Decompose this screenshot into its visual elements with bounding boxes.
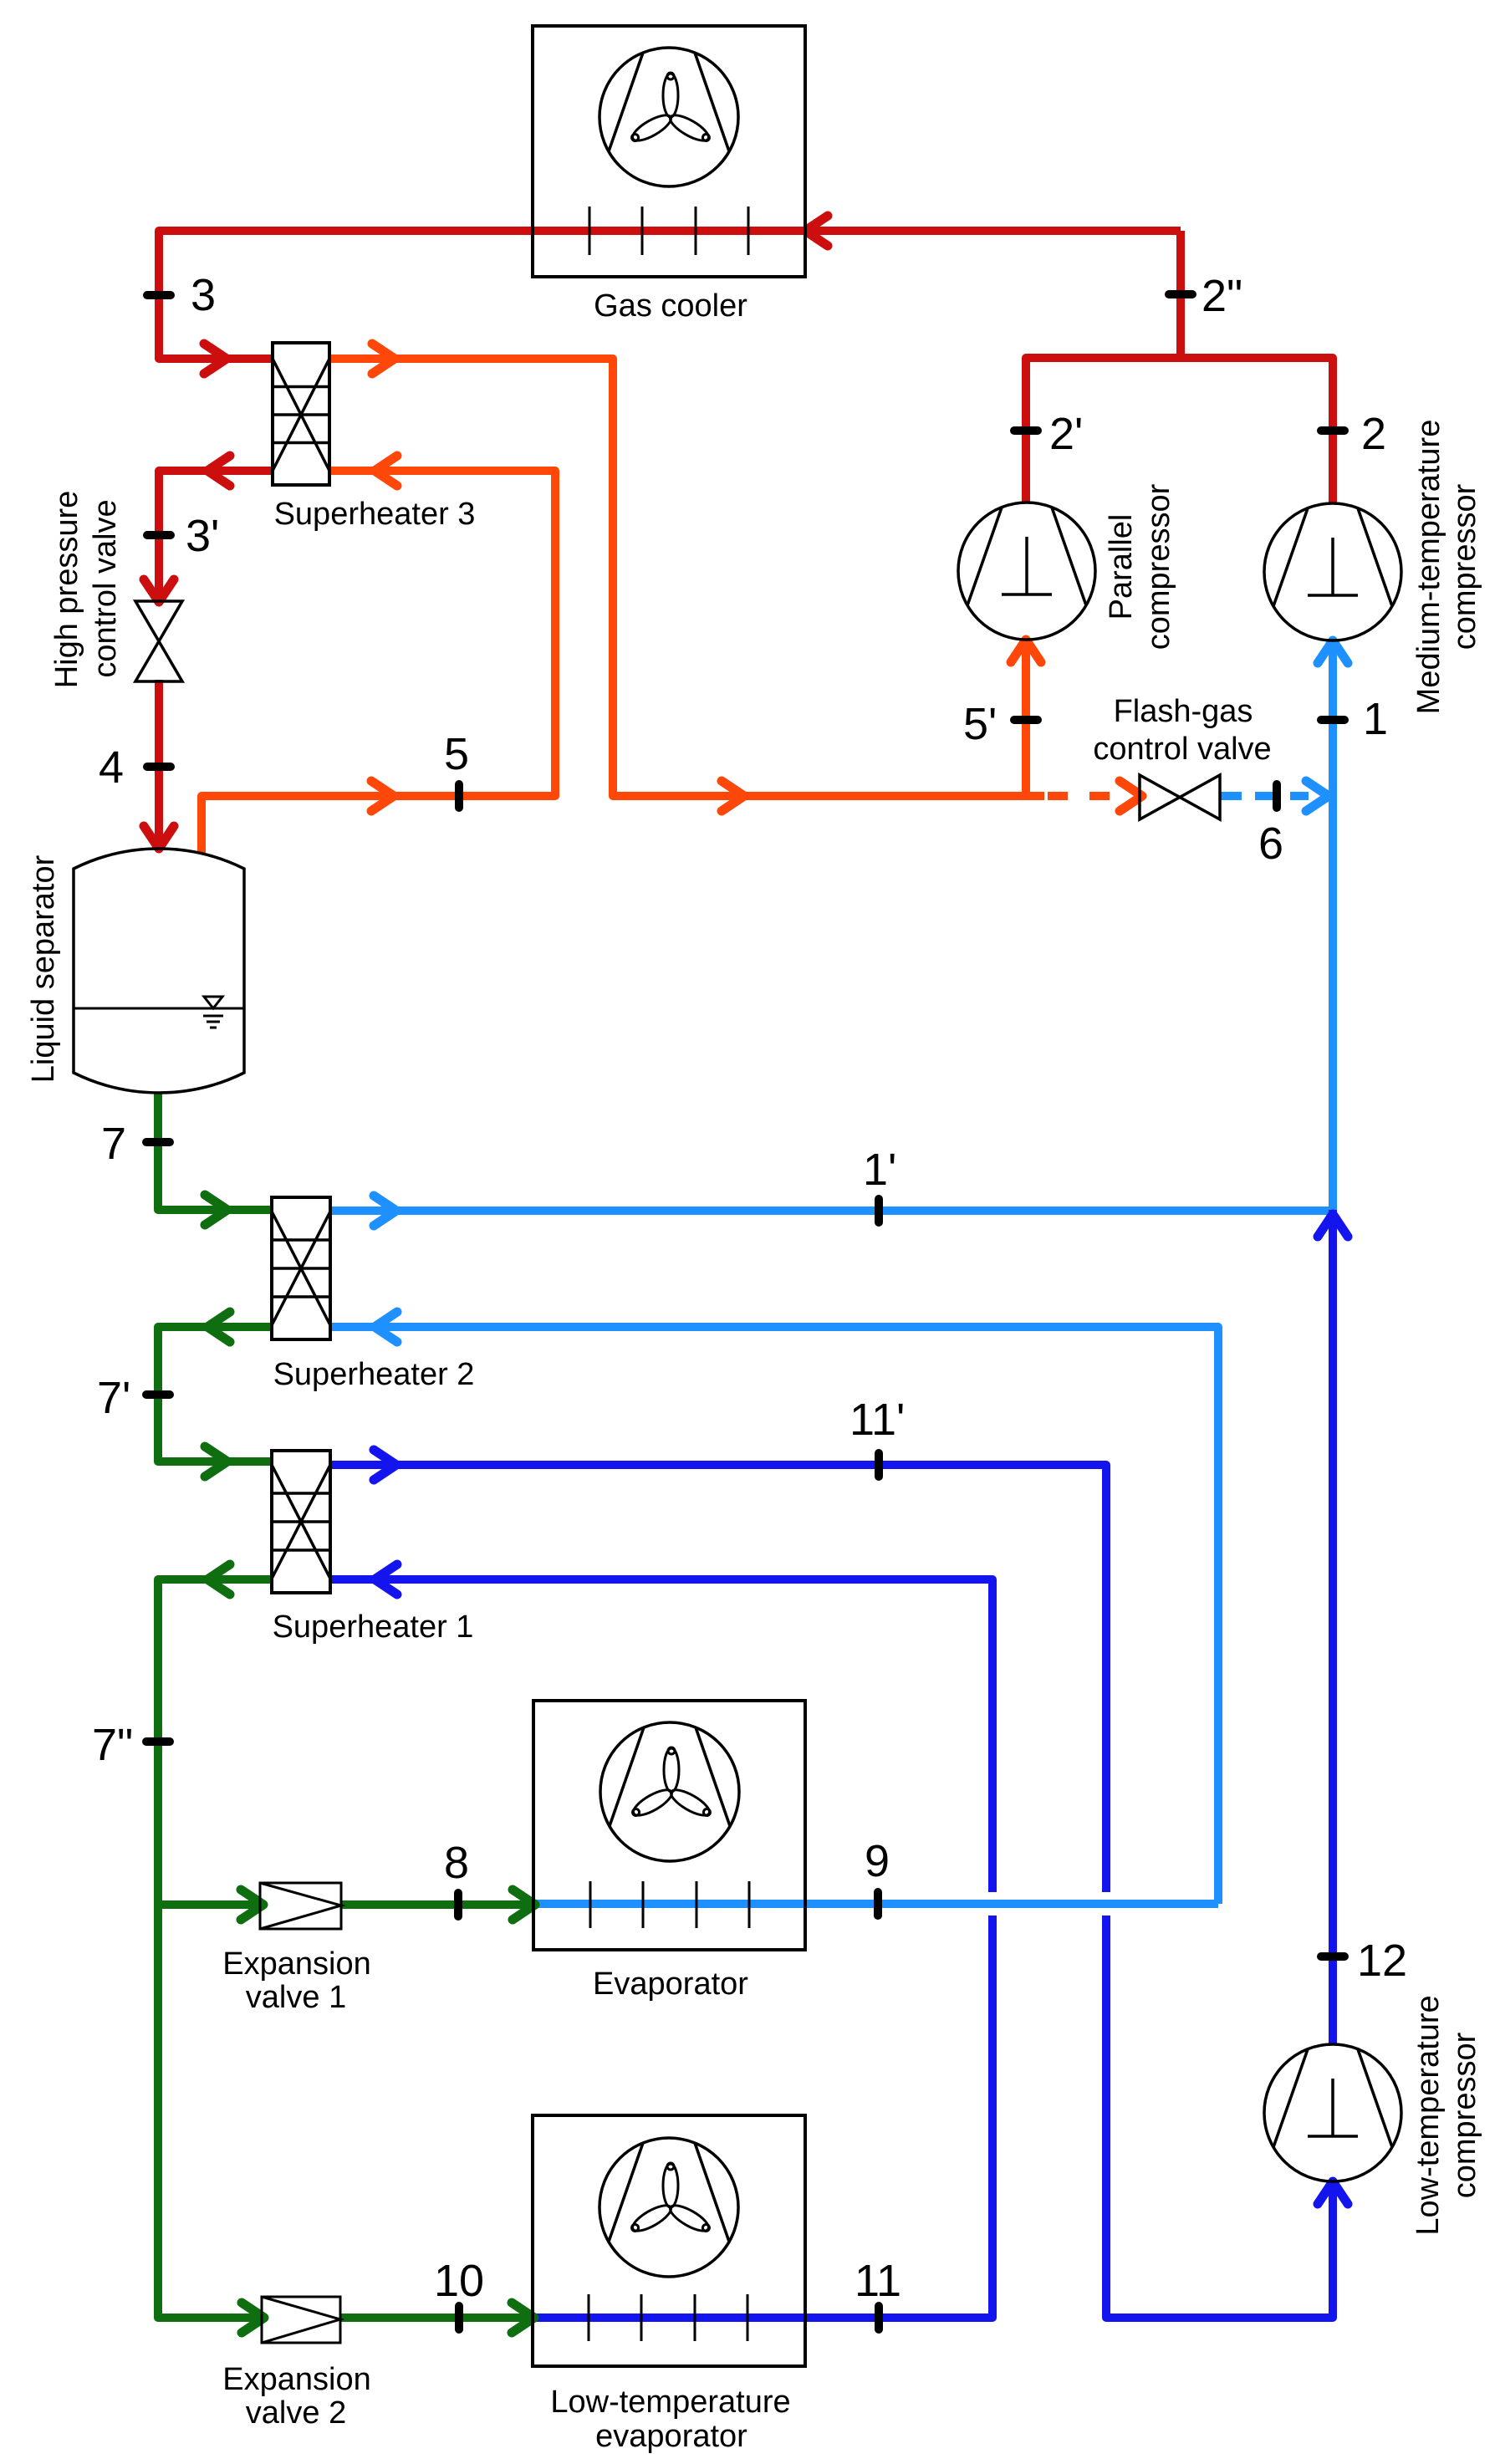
arrow orange separator vapour line (before state 5) (371, 781, 394, 811)
arrow green into expansion valve 2 (242, 2303, 264, 2333)
svg-text:Superheater 2: Superheater 2 (273, 1357, 475, 1392)
svg-text:2": 2" (1202, 271, 1242, 321)
liquid separator level symbol (203, 997, 223, 1028)
arrow light blue on 1' line (374, 1196, 396, 1226)
svg-text:9: 9 (865, 1836, 890, 1886)
arrow red into superheater 3 hot inlet (204, 344, 227, 374)
low-temperature evaporator fan circle (599, 2138, 738, 2277)
wire green expansion valve 2 to low-temp evaporator (state 10) (340, 2314, 534, 2322)
low-temperature evaporator fan housing chords (609, 2143, 729, 2242)
wire green expansion valve 1 to evaporator (state 8) (341, 1900, 535, 1909)
node 6 tick (1273, 784, 1281, 808)
arrow orange toward flash-gas junction (722, 781, 744, 811)
svg-text:compressor: compressor (1447, 2032, 1482, 2198)
arrow green superheater 2 warm outlet (207, 1312, 230, 1342)
low-temperature compressor (1264, 2044, 1401, 2181)
evaporator fan housing chords (610, 1727, 730, 1826)
node 11 tick (875, 2306, 883, 2329)
wire light blue evaporator outlet line (state 9) (533, 1900, 1218, 1908)
wire light blue evaporator return to superheater 2 (330, 1327, 1218, 1904)
svg-text:Low-temperature: Low-temperature (550, 2385, 790, 2420)
node 4 tick (147, 763, 171, 771)
wire green superheater 1 return down to expansion valve 2 (state 7'') (158, 1579, 273, 2318)
expansion valve 2 (262, 2297, 340, 2343)
wire dark blue 11' line superheater 1 to low-temperature compressor (330, 1465, 1106, 1892)
superheater 2 heat exchanger (272, 1197, 330, 1339)
wire red discharge header 2-2'' (compressors to junction) (1026, 358, 1333, 503)
svg-text:valve 1: valve 1 (246, 1980, 346, 2015)
node 3' tick (147, 531, 171, 539)
wire green superheater 2 return down to superheater 1 (state 7') (158, 1327, 273, 1462)
high pressure control valve (135, 601, 182, 681)
arrow light blue into superheater 2 cold inlet (375, 1312, 397, 1342)
arrow green into expansion valve 1 (241, 1890, 263, 1920)
wire green separator liquid outlet (state 7) (158, 1093, 273, 1210)
svg-text:control valve: control valve (1093, 732, 1271, 767)
svg-text:6: 6 (1258, 819, 1283, 869)
svg-text:1': 1' (863, 1145, 896, 1195)
arrow green into evaporator (513, 1890, 535, 1920)
node 7' tick (146, 1390, 170, 1399)
svg-text:8: 8 (444, 1838, 469, 1888)
svg-text:11: 11 (855, 2256, 901, 2306)
svg-text:Flash-gas: Flash-gas (1114, 694, 1253, 729)
arrow red superheater 3 hot outlet (207, 456, 230, 486)
wire dark blue low-temp compressor discharge (state 12) (1329, 1210, 1337, 2044)
wire red valve to liquid separator (state 4) (155, 680, 163, 848)
node 11' tick (875, 1453, 883, 1477)
evaporator box (533, 1701, 805, 1950)
wire orange riser to parallel compressor (state 5') (1022, 640, 1030, 796)
svg-text:control valve: control valve (88, 499, 123, 677)
node 5' tick (1014, 716, 1038, 724)
node 8 tick (454, 1893, 462, 1916)
gas cooler fan circle (599, 48, 738, 186)
node 1 tick (1321, 716, 1344, 724)
node 9 tick (874, 1892, 882, 1916)
node 7'' tick (146, 1737, 170, 1746)
svg-text:Evaporator: Evaporator (593, 1967, 748, 2002)
svg-text:11': 11' (849, 1395, 905, 1445)
svg-text:evaporator: evaporator (595, 2419, 747, 2454)
svg-text:valve 2: valve 2 (246, 2395, 346, 2431)
arrow orange superheater 3 cold outlet (372, 344, 395, 374)
node 2' tick (1014, 426, 1038, 435)
evaporator fins (590, 1881, 749, 1928)
svg-text:Expansion: Expansion (222, 1946, 370, 1982)
evaporator fan circle (600, 1722, 739, 1861)
wire dark blue 11 riser above crossing to superheater 1 (330, 1579, 992, 1892)
arrow red into gas cooler (805, 216, 828, 246)
wire dark blue low-temp evaporator outlet (state 11) (533, 1916, 992, 2318)
gas cooler fins (589, 207, 748, 255)
parallel compressor (958, 502, 1095, 640)
gas cooler fan blades (629, 73, 713, 145)
wire orange superheater 3 cold outlet to flash-gas junction (state 5) (329, 359, 1044, 796)
node 12 tick (1321, 1952, 1344, 1961)
arrow dark blue into low-temperature compressor (1318, 2181, 1348, 2204)
arrow orange into superheater 3 cold inlet (375, 456, 397, 486)
node 10 tick (455, 2306, 463, 2329)
svg-text:Parallel: Parallel (1104, 514, 1139, 620)
wire red 2'' vertical to gas cooler top line (1176, 231, 1185, 358)
low-temperature evaporator fan blades (629, 2163, 713, 2236)
wire red gas cooler line and 3 down to superheater 3 (159, 231, 1181, 359)
svg-text:7': 7' (97, 1373, 130, 1423)
svg-text:Low-temperature: Low-temperature (1411, 1995, 1446, 2235)
arrow dark blue on 11' line (374, 1450, 396, 1480)
svg-text:Superheater 3: Superheater 3 (274, 497, 476, 532)
svg-text:compressor: compressor (1447, 483, 1482, 650)
medium-temperature compressor (1264, 503, 1401, 640)
evaporator fan blades (630, 1747, 714, 1820)
arrow red into liquid separator (144, 826, 174, 849)
arrow green into superheater 1 warm inlet (205, 1446, 227, 1477)
superheater 3 heat exchanger (273, 343, 329, 485)
node 1' tick (875, 1199, 883, 1222)
wire red superheater 3 out to high pressure valve (159, 471, 273, 603)
svg-text:7: 7 (101, 1119, 126, 1169)
wire green branch to expansion valve 1 (158, 1900, 260, 1909)
node 3 tick (147, 291, 171, 299)
wire light blue 1' line from superheater 2 to suction riser (330, 1206, 1333, 1215)
node 2 tick (1321, 426, 1344, 435)
svg-text:Gas cooler: Gas cooler (594, 288, 747, 324)
arrow dark blue discharge joining 1' junction (1318, 1214, 1348, 1237)
wire orange separator vapour to superheater 3 cold inlet (202, 471, 555, 854)
node 5 tick (455, 784, 463, 808)
liquid separator vessel (74, 849, 244, 1093)
wire dark blue 11' continued below crossing (1106, 1916, 1333, 2318)
svg-text:10: 10 (434, 2256, 484, 2306)
svg-text:3': 3' (186, 511, 219, 561)
svg-text:5': 5' (963, 699, 997, 749)
svg-text:compressor: compressor (1141, 483, 1176, 650)
arrow orange into parallel compressor (1011, 640, 1041, 662)
svg-text:2': 2' (1049, 409, 1083, 459)
wire light blue suction riser to medium-temperature compressor (state 1) (1329, 640, 1337, 1210)
superheater 1 heat exchanger (272, 1451, 330, 1593)
svg-text:High pressure: High pressure (49, 491, 84, 689)
low-temperature evaporator box (533, 2115, 805, 2366)
gas cooler fan housing chords (609, 53, 729, 151)
svg-text:1: 1 (1363, 694, 1388, 744)
node 2'' tick (1169, 290, 1192, 298)
expansion valve 1 (260, 1883, 341, 1929)
svg-text:7": 7" (92, 1720, 133, 1770)
svg-text:Medium-temperature: Medium-temperature (1411, 420, 1446, 715)
arrow orange dashed into flash-gas control valve (1120, 781, 1142, 811)
arrow green superheater 1 warm outlet (207, 1564, 230, 1594)
liquid separator level line (74, 1008, 244, 1010)
gas cooler box (533, 26, 805, 277)
svg-text:12: 12 (1357, 1936, 1407, 1986)
svg-text:5: 5 (444, 729, 469, 779)
svg-text:Superheater 1: Superheater 1 (273, 1610, 474, 1645)
wire blue dashed after flash-gas control valve (state 6) (1220, 792, 1309, 800)
node 7 tick (146, 1138, 170, 1146)
arrow dark blue into superheater 1 cold inlet (375, 1564, 397, 1594)
arrow blue dashed into suction riser (1306, 781, 1329, 811)
svg-text:2: 2 (1361, 409, 1386, 459)
svg-text:4: 4 (99, 742, 124, 793)
low-temperature evaporator fins (589, 2294, 747, 2341)
arrow green into low-temp evaporator (512, 2303, 534, 2333)
svg-text:3: 3 (191, 270, 216, 320)
arrow light blue into medium-temperature compressor (1318, 640, 1348, 663)
arrow green into superheater 2 warm inlet (205, 1195, 227, 1225)
svg-text:Liquid separator: Liquid separator (26, 854, 61, 1083)
svg-text:Expansion: Expansion (222, 2362, 370, 2397)
arrow red into high pressure control valve (144, 579, 174, 602)
wire orange dashed to flash-gas control valve (1048, 792, 1120, 800)
flash-gas control valve (1140, 775, 1220, 819)
